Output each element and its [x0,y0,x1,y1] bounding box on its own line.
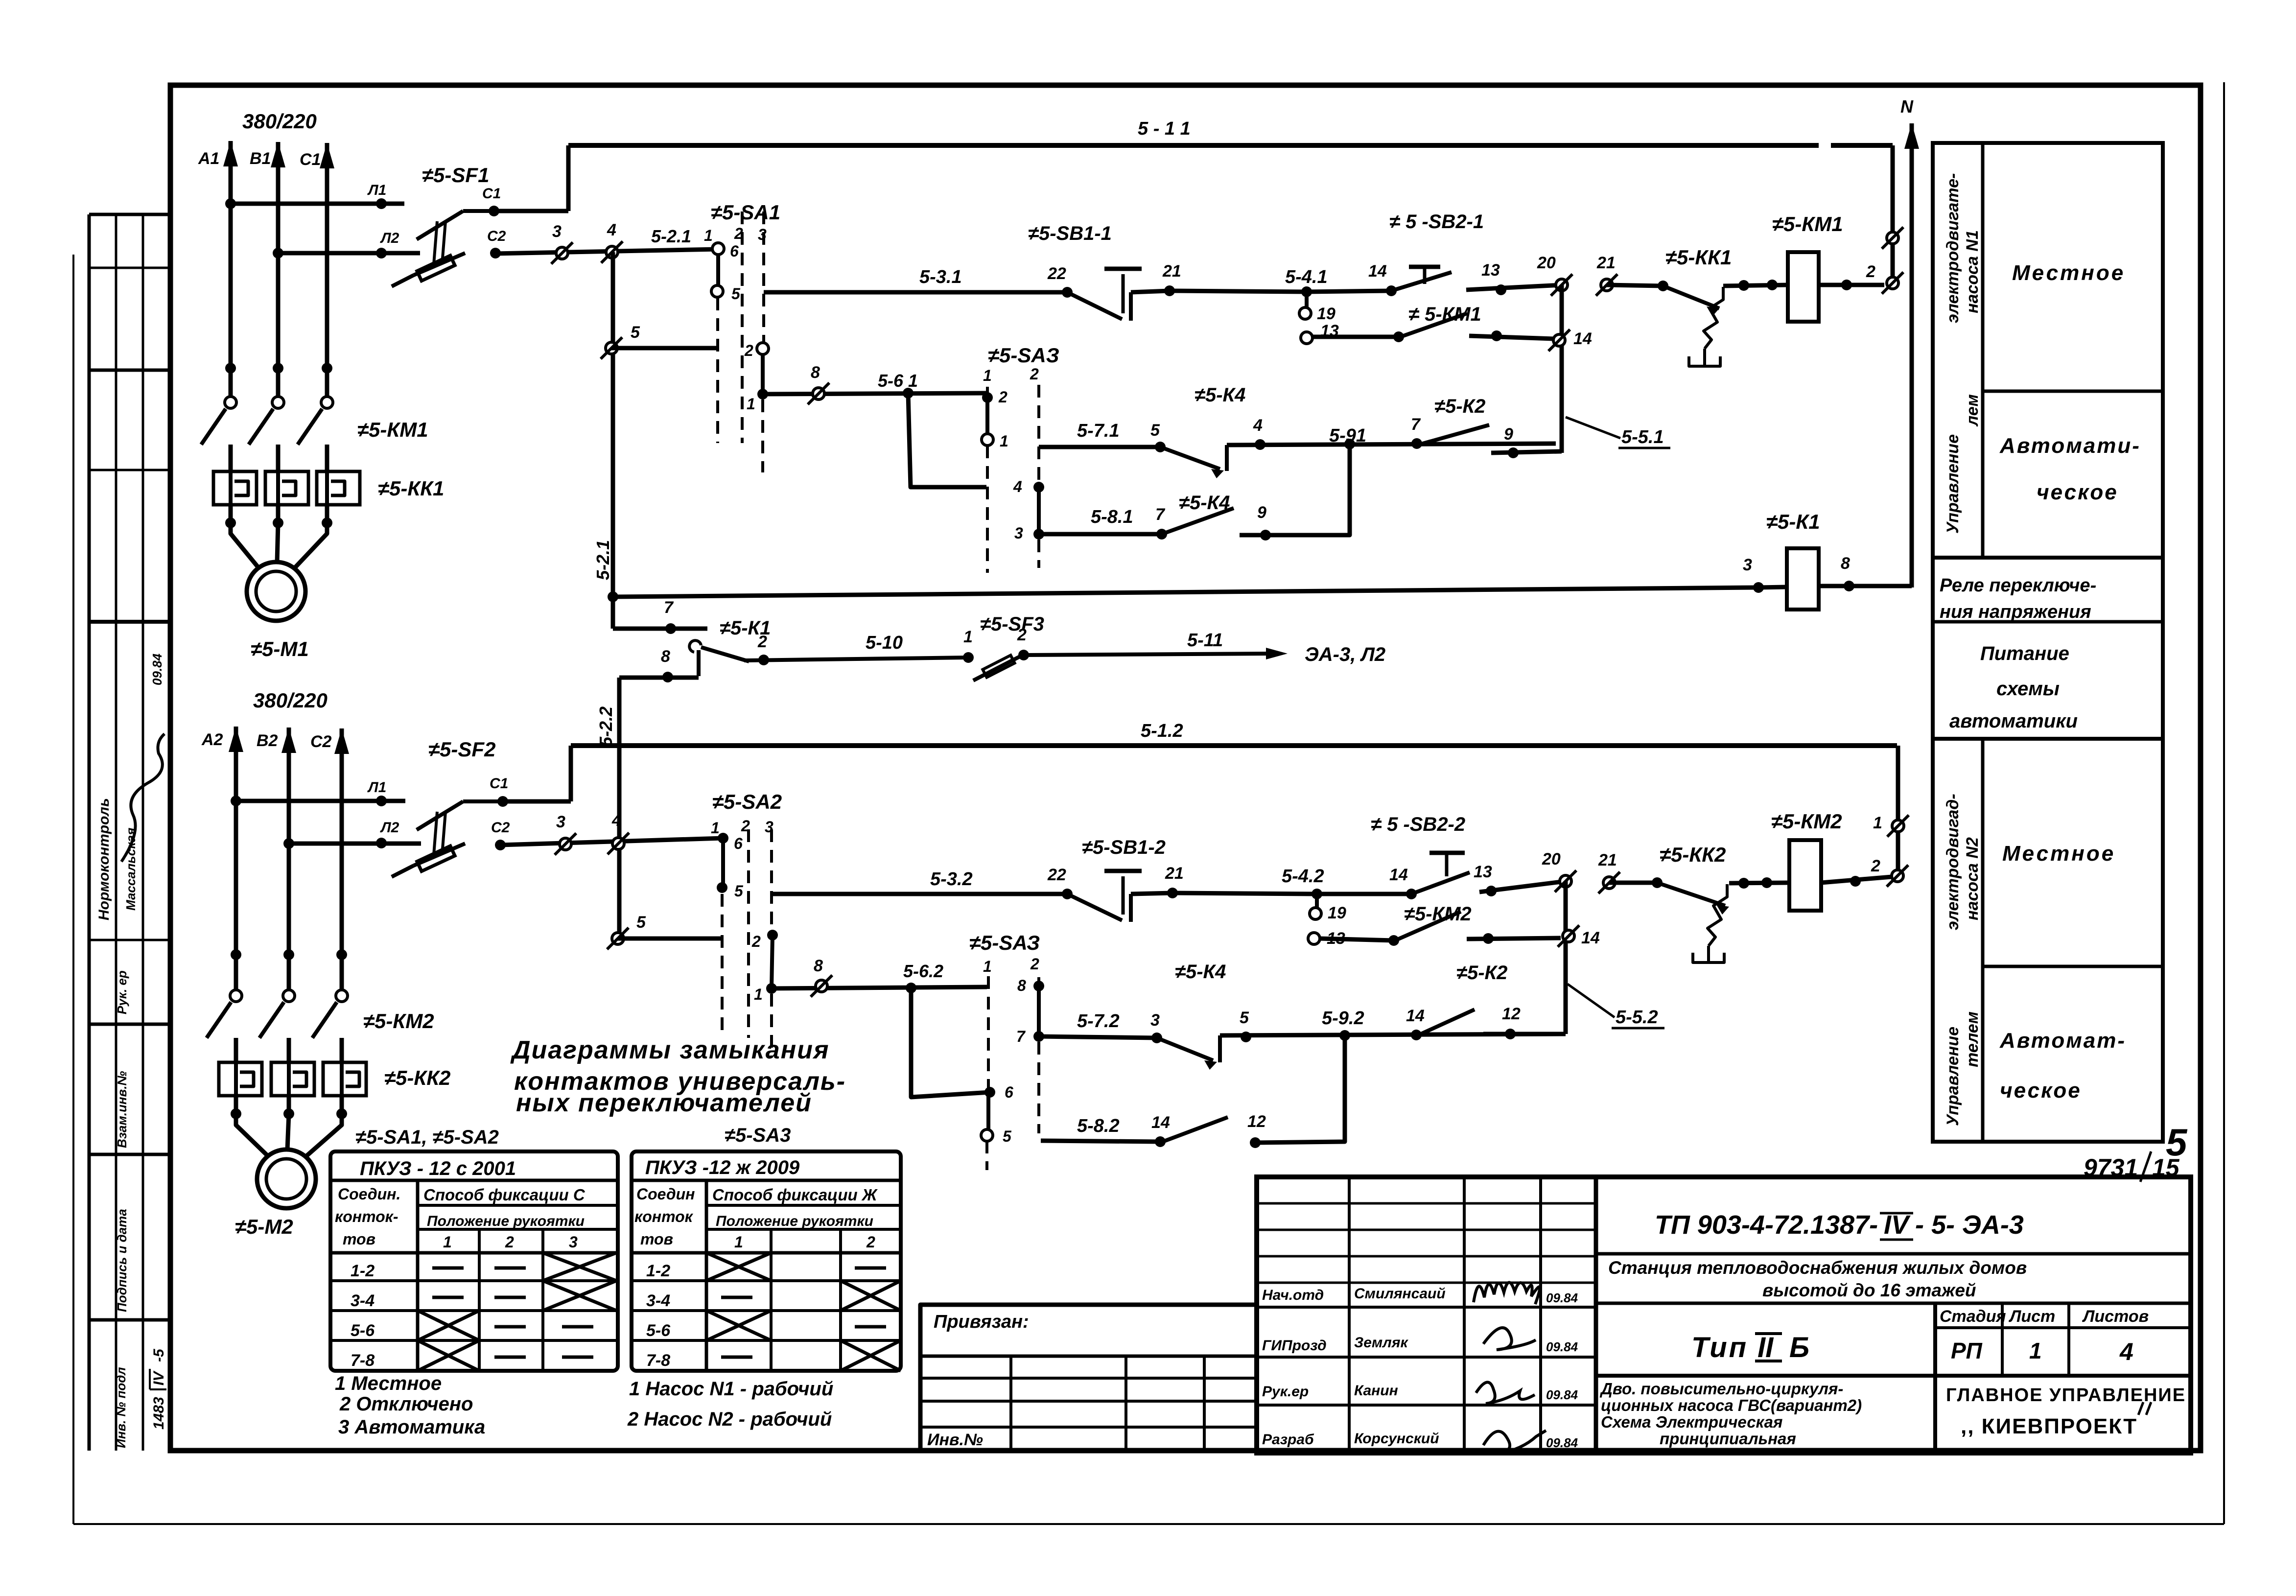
svg-text:ных переключателей: ных переключателей [516,1089,812,1117]
svg-text:5 - 1 1: 5 - 1 1 [1138,118,1191,139]
wire 5-7.2 [1039,1036,1157,1038]
svg-text:4: 4 [1253,416,1263,435]
switch table PKU3-12zh 2009 (SA3) [632,1151,901,1371]
svg-text:2: 2 [505,1233,514,1251]
terminal 2 upper [1887,277,1898,289]
contact 3 upper [556,247,568,259]
svg-text:≠5-SАЗ: ≠5-SАЗ [969,931,1040,954]
svg-text:7-8: 7-8 [351,1351,375,1370]
svg-text:2: 2 [757,633,767,651]
svg-text:21: 21 [1162,262,1181,281]
svg-text:5-9.2: 5-9.2 [1322,1008,1364,1029]
svg-text:09.84: 09.84 [1546,1387,1578,1402]
wire 12 stub lower [1483,1032,1566,1036]
svg-text:5-3.1: 5-3.1 [919,267,962,287]
terminal C1 of SF2 [497,796,508,807]
wire 5-11 to EA-3 [1018,650,1029,660]
svg-text:9: 9 [1504,425,1513,444]
svg-text:- 5- ЭА-3: - 5- ЭА-3 [1915,1210,2024,1240]
svg-text:IV: IV [151,1370,167,1385]
svg-text:ческое: ческое [2000,1079,2082,1103]
SA3 table row 3-4 marks [721,1296,752,1299]
svg-text:Привязан:: Привязан: [934,1312,1029,1332]
svg-text:1: 1 [2029,1338,2042,1363]
wire 5-3.1 [764,290,1067,295]
svg-text:Способ фиксации С: Способ фиксации С [423,1186,586,1204]
svg-text:5: 5 [1150,421,1160,440]
svg-text:5-6: 5-6 [351,1321,375,1340]
privjazan sub table [920,1355,1257,1358]
contact 14 and SB2-2 [1406,889,1417,899]
svg-text:7: 7 [1016,1028,1026,1045]
svg-text:Земляк: Земляк [1354,1335,1408,1351]
mode table row line mestnoe/avto N1 [1983,390,2163,393]
neutral line N [1910,123,1914,587]
svg-text:21: 21 [1165,864,1184,883]
svg-text:-5: -5 [151,1348,167,1362]
svg-text:IV: IV [1884,1210,1911,1240]
sig table col lines [1348,1177,1351,1453]
svg-text:≠5-SА2: ≠5-SА2 [712,790,782,813]
svg-text:высотой до 16 этажей: высотой до 16 этажей [1762,1280,1976,1300]
svg-text:5: 5 [734,882,744,900]
svg-text:Автомат-: Автомат- [1999,1029,2126,1053]
svg-text:20: 20 [1537,254,1556,272]
svg-text:1: 1 [734,1233,743,1251]
svg-text:8: 8 [814,957,823,975]
svg-text:электродвигате-: электродвигате- [1944,173,1962,323]
mode table column divider upper [1981,143,1985,558]
svg-text:≠5-М1: ≠5-М1 [251,637,309,660]
svg-text:1: 1 [704,227,713,244]
privjazan box [920,1305,1257,1453]
phase line C2 [340,801,344,990]
svg-text:автоматики: автоматики [1949,710,2078,732]
svg-text:≠5-К1: ≠5-К1 [1766,510,1820,533]
wire into coil KM1 [1723,285,1788,286]
svg-text:≠5-К4: ≠5-К4 [1195,384,1245,406]
svg-text:Л1: Л1 [367,779,386,796]
svg-text:7: 7 [1411,415,1421,434]
SA1 table row 5-6 marks [418,1311,479,1340]
node 5-4.2 [1312,889,1322,899]
contact K4 lower (5-8.2) [1163,1117,1228,1142]
wire into coil KM2 [1729,883,1789,883]
svg-text:ния напряжения: ния напряжения [1940,602,2091,622]
svg-text:1-2: 1-2 [351,1262,375,1280]
svg-text:3: 3 [1743,556,1752,574]
paper edge left [72,255,74,1524]
wire 7 upper [613,627,707,631]
svg-text:7: 7 [664,598,674,617]
svg-text:2: 2 [1030,955,1039,973]
svg-text:5-2.1: 5-2.1 [593,540,613,580]
svg-text:ГИПрозд: ГИПрозд [1262,1338,1327,1354]
svg-text:≠5-SA1, ≠5-SA2: ≠5-SA1, ≠5-SA2 [355,1127,499,1148]
svg-text:лем: лем [1963,394,1982,427]
wire coil KM2 to terminal 2 [1821,877,1892,883]
stadija list listov header [1935,1326,2191,1329]
svg-text:Управление: Управление [1944,1027,1962,1126]
svg-text:Станция тепловодоснабжения жи: Станция тепловодоснабжения жилых домов [1608,1258,2027,1278]
wire 13 to 20 [1466,285,1562,290]
paper edge bottom [73,1523,2224,1525]
svg-text:3 Автоматика: 3 Автоматика [338,1416,485,1438]
contact 14 aux lower [1563,930,1574,942]
svg-text:21: 21 [1596,254,1616,272]
svg-text:5-10: 5-10 [866,633,903,653]
wire 5-7.1 [1039,445,1160,449]
svg-text:7: 7 [1155,505,1166,524]
svg-text:≠5-КК2: ≠5-КК2 [384,1066,450,1089]
phase line A2 [234,801,238,990]
svg-text:Местное: Местное [2002,842,2115,866]
svg-text:3: 3 [1014,524,1023,542]
bus 5-1.2 [571,743,1897,748]
svg-text:5: 5 [636,913,646,932]
svg-text:2: 2 [1871,857,1880,875]
svg-text:1 Насос N1 - рабочий: 1 Насос N1 - рабочий [629,1378,833,1400]
wire 13 to 20 lower [1479,881,1566,892]
svg-text:С2: С2 [487,228,506,244]
svg-text:20: 20 [1542,850,1561,868]
svg-text:5-4.2: 5-4.2 [1282,866,1324,887]
SA3 table row 7-8 marks [721,1356,752,1359]
svg-text:1: 1 [983,367,992,384]
riser to bus 5-11 [566,145,571,211]
wire to KK1 contact [1607,285,1663,286]
svg-text:телем: телем [1963,1011,1982,1067]
svg-text:Положение рукоятки: Положение рукоятки [427,1213,585,1229]
svg-text:1: 1 [443,1233,452,1251]
svg-text:Л2: Л2 [380,820,399,836]
svg-text:12: 12 [1247,1112,1266,1131]
svg-text:≠5-КК1: ≠5-КК1 [1665,246,1732,269]
svg-text:конток-: конток- [335,1208,398,1225]
svg-text:4: 4 [611,811,621,830]
svg-text:Местное: Местное [2012,261,2125,285]
svg-text:Б: Б [1789,1332,1809,1363]
svg-text:ческое: ческое [2037,480,2118,504]
svg-text:ЭА-3, Л2: ЭА-3, Л2 [1305,644,1385,665]
svg-text:Реле переключе-: Реле переключе- [1940,575,2096,596]
bus 5-11 [568,143,1819,148]
mode table row line section1 bottom [1933,556,2163,560]
svg-text:Подпись и дата: Подпись и дата [115,1209,129,1312]
svg-text:09.84: 09.84 [1546,1291,1578,1305]
svg-text:Нач.отд: Нач.отд [1262,1287,1324,1303]
svg-text:Дво. повысительно-циркуля-: Дво. повысительно-циркуля- [1599,1380,1843,1398]
svg-text:5: 5 [631,323,640,342]
svg-text:С1: С1 [300,150,321,169]
svg-text:2: 2 [1030,365,1039,383]
svg-text:8: 8 [1841,554,1850,573]
svg-text:Взам.инв.№: Взам.инв.№ [115,1071,129,1148]
svg-text:Соедин.: Соедин. [338,1185,400,1203]
svg-text:≠5-К2: ≠5-К2 [1434,396,1485,417]
node 4 lower [612,838,624,849]
svg-text:5-8.2: 5-8.2 [1077,1116,1120,1136]
svg-text:≠5-К4: ≠5-К4 [1175,961,1226,983]
svg-text:Рук.ер: Рук.ер [1262,1384,1309,1400]
wire KM2 aux [1315,894,1319,908]
wire 5-6.1 [763,393,987,394]
svg-text:5-6: 5-6 [646,1321,671,1340]
wire 5-8.1 [1039,532,1162,537]
svg-text:тов: тов [640,1230,673,1248]
svg-text:5: 5 [1003,1127,1012,1145]
svg-text:09.84: 09.84 [1546,1435,1578,1450]
phase line B2 [287,844,291,990]
svg-text:В2: В2 [257,731,278,750]
svg-text:≠ 5 -SВ2-1: ≠ 5 -SВ2-1 [1389,211,1484,233]
svg-text:С2: С2 [491,820,510,836]
svg-text:8: 8 [811,363,820,382]
svg-text:2 Отключено: 2 Отключено [339,1393,473,1415]
mode table row line mestnoe/avto N2 [1983,965,2163,968]
svg-text:≠5-КК2: ≠5-КК2 [1660,843,1726,866]
svg-text:5-6 1: 5-6 1 [878,371,918,391]
svg-text:5-5.2: 5-5.2 [1616,1007,1658,1028]
mode table frame [1933,143,2163,1142]
svg-text:≠5-SF3: ≠5-SF3 [980,613,1044,635]
svg-text:14: 14 [1368,262,1387,281]
wire K1 coil line [613,587,1758,597]
riser 5-2.2 [617,678,622,939]
title block outline [1257,1177,2191,1453]
svg-text:ПКУЗ -12 ж 2009: ПКУЗ -12 ж 2009 [645,1157,800,1178]
svg-text:6: 6 [734,835,743,852]
title object name line [1596,1302,2191,1305]
svg-text:7-8: 7-8 [646,1351,670,1370]
title type cell [1596,1374,2191,1378]
svg-text:≠5-SA1: ≠5-SA1 [711,201,780,224]
svg-text:Способ фиксации Ж: Способ фиксации Ж [712,1186,878,1204]
phase line B1 [276,253,281,398]
svg-text:4: 4 [607,221,616,239]
svg-text:Положение рукоятки: Положение рукоятки [716,1213,873,1229]
svg-text:Схема Электрическая: Схема Электрическая [1601,1413,1782,1431]
phase line A1 [229,204,233,398]
svg-text:≠5-КК1: ≠5-КК1 [378,477,444,500]
svg-text:1: 1 [711,819,720,837]
wire L1 upper [231,202,404,206]
svg-text:Л2: Л2 [380,230,399,246]
svg-text:5-91: 5-91 [1329,425,1366,446]
wire C1 to bus riser [494,209,568,213]
wire 5-6.2 [772,987,987,988]
contact 14 aux upper [1553,334,1565,346]
motor M2 [257,1150,316,1208]
terminal C2 of SF1 [490,248,501,258]
svg-text:2: 2 [744,342,753,359]
svg-text:С1: С1 [490,775,508,792]
branch 9 to 5-8.1 [1240,444,1350,535]
svg-text:380/220: 380/220 [253,689,328,712]
svg-text:5-8.1: 5-8.1 [1091,507,1133,527]
svg-text:Управление: Управление [1944,434,1962,534]
svg-text:6: 6 [1005,1083,1013,1101]
svg-text:2: 2 [1017,626,1027,644]
svg-text:принципиальная: принципиальная [1660,1430,1796,1448]
contact 20 lower [1560,875,1571,887]
svg-text:≠5-К2: ≠5-К2 [1456,962,1507,984]
wire C1 to bus riser lower [503,799,571,804]
svg-text:380/220: 380/220 [242,110,317,133]
svg-text:5-3.2: 5-3.2 [930,869,973,890]
svg-text:Диаграммы замыкания: Диаграммы замыкания [510,1036,830,1064]
svg-text:≠ 5 -SВ2-2: ≠ 5 -SВ2-2 [1371,814,1465,835]
svg-text:13: 13 [1474,863,1492,881]
aux riser 20-14 upper [1560,285,1564,453]
svg-text:С1: С1 [482,186,501,202]
svg-text:21: 21 [1598,851,1617,869]
wire 5-8.2 [1041,1141,1160,1142]
vertical 5-2.1 from node4 [611,252,615,629]
svg-text:2 Насос N2 - рабочий: 2 Насос N2 - рабочий [627,1408,832,1430]
svg-text:Разраб: Разраб [1262,1432,1314,1448]
svg-text:2: 2 [866,1233,875,1251]
svg-text:В1: В1 [250,149,271,168]
svg-text:≠5-М2: ≠5-М2 [235,1215,293,1238]
svg-text:Нормоконтроль: Нормоконтроль [96,798,112,920]
wire 5-9.2 [1220,1034,1566,1035]
svg-text:09.84: 09.84 [1546,1339,1578,1354]
svg-text:14: 14 [1406,1007,1425,1025]
wire L1 lower [236,799,405,803]
wire 21 to 5-4.2 [1172,893,1317,894]
svg-text:электродвигад-: электродвигад- [1944,794,1962,930]
svg-text:≠5-SВ1-2: ≠5-SВ1-2 [1082,837,1166,858]
svg-text:Инв.№: Инв.№ [927,1431,983,1449]
svg-text:Массальская: Массальская [123,828,138,911]
contact 14 and SB2-1 [1386,285,1397,296]
svg-text:≠5-КМ2: ≠5-КМ2 [1771,810,1842,833]
svg-text:РП: РП [1951,1338,1983,1363]
svg-text:13: 13 [1481,261,1500,280]
wire L2 lower [289,842,421,846]
svg-text:1: 1 [1000,432,1008,450]
SA3 table row 1-2 marks [706,1253,771,1281]
svg-text:≠5-SF2: ≠5-SF2 [428,738,495,761]
svg-text:22: 22 [1047,866,1066,884]
contact 5 upper [606,342,617,354]
svg-text:3-4: 3-4 [646,1291,670,1310]
node 5-4.1 [1301,286,1312,297]
stamp signature squiggle [121,734,164,862]
svg-text:Канин: Канин [1354,1383,1398,1399]
svg-text:Автомати-: Автомати- [1999,434,2141,458]
svg-text:2: 2 [1866,262,1875,281]
svg-text:А1: А1 [198,149,219,168]
svg-text:2: 2 [751,933,761,950]
svg-text:5-7.2: 5-7.2 [1077,1011,1120,1032]
svg-text:5-5.1: 5-5.1 [1621,427,1664,447]
wire 9 stub upper [1491,451,1562,453]
drawing frame [170,85,2201,1451]
wire 5 to SA1 [611,346,718,351]
svg-text:6: 6 [730,242,739,260]
svg-text:насоса N2: насоса N2 [1963,837,1982,920]
svg-text:,, КИЕВПРОЕКТ: ,, КИЕВПРОЕКТ [1961,1414,2137,1438]
svg-text:3-4: 3-4 [351,1291,375,1310]
svg-text:≠5-КМ1: ≠5-КМ1 [357,418,428,441]
wire 8 upper [619,676,699,680]
svg-text:14: 14 [1389,866,1408,884]
svg-text:5-4.1: 5-4.1 [1285,267,1328,287]
svg-text:5: 5 [1240,1009,1249,1027]
svg-text:14: 14 [1151,1113,1170,1132]
svg-text:Питание: Питание [1980,643,2069,664]
wires KK2 to motor M2 [234,1096,238,1114]
SA1 table row 1-2 marks [432,1267,464,1270]
wire 5 to SA2 [618,937,722,941]
motor M1 [247,562,305,621]
svg-text:Инв. № подл: Инв. № подл [114,1367,128,1448]
svg-text:С2: С2 [310,732,332,751]
phase line C1 [325,204,329,398]
branch from 5-6.1 node down [908,393,986,487]
svg-text:5: 5 [731,285,741,303]
svg-text:19: 19 [1328,904,1346,922]
svg-text:А2: А2 [201,730,223,749]
wire coil KM1 to terminal 2 [1819,283,1884,287]
branch 12 to 5-8.2 [1255,1035,1345,1143]
svg-text:3: 3 [556,813,565,831]
svg-text:≠5-SAЗ: ≠5-SAЗ [988,344,1059,367]
svg-text:4: 4 [2119,1338,2133,1365]
svg-text:ТП 903-4-72.1387-: ТП 903-4-72.1387- [1655,1210,1878,1240]
svg-text:09.84: 09.84 [150,653,164,685]
paper edge right [2223,82,2225,1524]
svg-text:≠5-SВ1-1: ≠5-SВ1-1 [1028,223,1112,244]
svg-text:5-2.2: 5-2.2 [596,706,616,747]
wire 21 to 5-4.1 [1170,291,1307,292]
svg-text:Смилянсаий: Смилянсаий [1354,1286,1446,1302]
contact 20 [1556,279,1568,291]
SA1 table row 7-8 marks [418,1340,479,1371]
mode table row line pitanie bottom [1933,737,2163,741]
svg-text:тов: тов [343,1230,375,1248]
wire 5-10 [744,657,968,660]
svg-text:19: 19 [1317,305,1335,323]
svg-text:5-1.2: 5-1.2 [1141,721,1183,741]
svg-text:1483: 1483 [151,1397,167,1430]
svg-text:конток: конток [634,1208,694,1225]
svg-text:≠5-КМ2: ≠5-КМ2 [363,1009,434,1033]
wire L2 upper [278,251,420,256]
svg-text:14: 14 [1581,929,1600,947]
contact 21 right lower [1603,877,1615,889]
node 4 upper [606,246,618,258]
aux riser 20-14 lower [1564,881,1568,1034]
svg-text:Лист: Лист [2008,1307,2055,1326]
contact 3 lower [560,838,571,850]
svg-text:14: 14 [1573,329,1592,348]
svg-text:Листов: Листов [2082,1307,2149,1326]
svg-text:12: 12 [1502,1005,1521,1023]
svg-text:9: 9 [1257,503,1266,522]
svg-text:Рук. ер: Рук. ер [115,970,129,1014]
SA3 table row 5-6 marks [706,1311,771,1340]
svg-text:схемы: схемы [1996,678,2060,700]
wires KK1 to motor M1 [229,505,233,523]
contact 21 right [1601,279,1613,291]
svg-text:5-2.1: 5-2.1 [651,226,691,246]
svg-text:1: 1 [963,628,973,646]
svg-text:≠5-КМ1: ≠5-КМ1 [1772,212,1843,235]
contact 5 lower [612,933,624,944]
